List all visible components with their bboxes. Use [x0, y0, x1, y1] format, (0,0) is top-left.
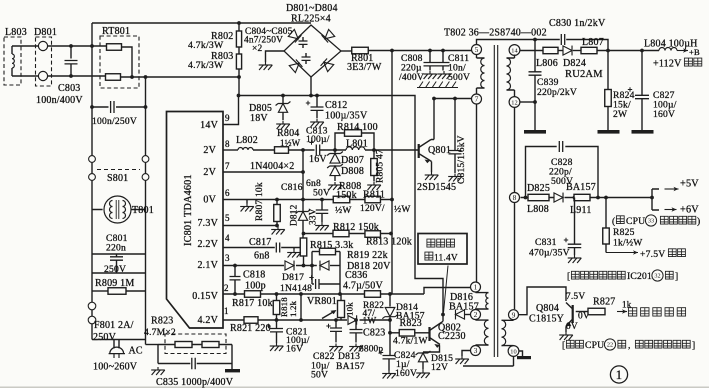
capacitor C822	[335, 320, 337, 328]
wire pin 3 row	[223, 265, 317, 267]
capacitor C817	[276, 243, 279, 253]
svg-text:33V: 33V	[309, 208, 319, 225]
svg-text:[: [	[562, 340, 565, 351]
svg-text:R817 10k: R817 10k	[232, 298, 273, 309]
svg-text:Q804: Q804	[536, 303, 559, 314]
fuse F801	[88, 302, 96, 310]
svg-text:16V: 16V	[286, 344, 303, 355]
svg-text:4.7M×2: 4.7M×2	[144, 327, 176, 338]
svg-text:C830 1n/2kV: C830 1n/2kV	[549, 18, 606, 29]
T802 pin 3	[471, 346, 481, 356]
scan edge artifact	[0, 386, 709, 388]
svg-text:C817: C817	[249, 237, 271, 248]
+5V arrow	[665, 188, 679, 190]
svg-text:D817: D817	[282, 272, 304, 283]
svg-text:9: 9	[225, 113, 230, 123]
ground C824	[382, 371, 396, 379]
svg-text:R823: R823	[400, 318, 422, 329]
svg-text:1k/½W: 1k/½W	[613, 238, 643, 249]
svg-text:D812: D812	[290, 204, 300, 226]
svg-text:BA157: BA157	[566, 182, 596, 193]
resistor R823b	[202, 342, 219, 348]
resistor R801	[352, 47, 369, 54]
ground bar pin12	[524, 130, 546, 134]
resistor R812	[333, 230, 349, 237]
diode D825	[554, 193, 563, 203]
svg-text:160V: 160V	[395, 368, 417, 379]
ground C835 left	[151, 367, 165, 375]
svg-text:4: 4	[225, 233, 230, 243]
wire pin 4 row	[223, 247, 300, 249]
svg-text:R807 10k: R807 10k	[255, 182, 265, 221]
T802 winding 1-2	[476, 292, 489, 310]
ground C811	[437, 71, 451, 79]
svg-text:C2230: C2230	[438, 331, 466, 342]
svg-text:S801: S801	[107, 173, 128, 184]
zener D815	[416, 351, 431, 362]
wire sense column lower	[390, 200, 392, 307]
svg-text:1N4004×2: 1N4004×2	[250, 161, 294, 172]
wire to R823	[390, 332, 400, 334]
bridge diode 1	[288, 29, 301, 42]
svg-text:7: 7	[225, 161, 230, 171]
wire B+ rail	[597, 50, 659, 52]
resistor R813	[365, 231, 381, 238]
svg-text:8: 8	[225, 139, 230, 149]
svg-text:160V: 160V	[653, 109, 675, 120]
capacitor C802	[92, 106, 109, 108]
wire divider bottom	[158, 363, 232, 365]
svg-text:½W: ½W	[335, 205, 352, 216]
D801 contact top	[38, 41, 47, 50]
diode D818	[330, 265, 340, 267]
svg-text:1N4148: 1N4148	[280, 283, 312, 294]
ground Q804	[559, 332, 573, 340]
5V/6V fork	[652, 189, 659, 210]
svg-text:100n/400V: 100n/400V	[36, 95, 83, 106]
svg-text:33: 33	[648, 218, 654, 225]
wire top mains rail	[92, 22, 311, 24]
wire pin5 top loop	[477, 40, 536, 46]
capacitor C812	[316, 96, 318, 107]
ground C815	[448, 174, 462, 182]
inductor L804	[659, 48, 677, 51]
svg-text:220p/2kV: 220p/2kV	[537, 87, 577, 98]
capacitor C821	[276, 320, 278, 328]
T802 core	[494, 45, 497, 357]
page number circle	[610, 366, 627, 383]
diode D824	[558, 50, 563, 52]
resistor R815 (vertical)	[300, 238, 307, 256]
wire pin1 row	[424, 288, 471, 295]
svg-text:[: [	[567, 271, 570, 282]
ground bar C835 right	[225, 369, 240, 372]
T802 pin 9	[509, 310, 519, 320]
svg-text:C803: C803	[58, 83, 80, 94]
resistor R819	[312, 251, 319, 253]
ground D807/D808	[328, 182, 342, 190]
switch S801 contacts	[89, 156, 96, 163]
wire L801 to base	[365, 149, 419, 151]
resistor R822	[365, 291, 381, 298]
svg-text:CPU: CPU	[626, 216, 645, 227]
wire R812 row	[304, 233, 393, 235]
standby text line1	[427, 239, 435, 247]
wire mains neutral vertical	[145, 77, 147, 345]
svg-text:R825: R825	[613, 227, 635, 238]
svg-text:4.2V: 4.2V	[197, 315, 218, 326]
svg-text:7.5V: 7.5V	[566, 292, 585, 302]
wire pin 9	[223, 96, 239, 125]
svg-text:,: ,	[628, 340, 631, 351]
resistor R802	[238, 23, 240, 31]
svg-text:50V: 50V	[313, 188, 330, 199]
svg-text:C812: C812	[325, 100, 347, 111]
R819/D818 loop verticals	[312, 252, 340, 285]
inductor L803 (dashed enclosure)	[4, 37, 21, 85]
wire T802 pin7 row	[434, 98, 472, 100]
ground bar C827	[632, 130, 654, 134]
T801 stub wires	[92, 209, 146, 211]
svg-text:2.2V: 2.2V	[197, 239, 218, 250]
thermistor RT801 (dashed enclosure)	[100, 36, 139, 88]
svg-text:5: 5	[225, 213, 230, 223]
wire L802 to R804	[253, 149, 275, 151]
diode D817	[285, 261, 294, 271]
wire top row to RT801	[48, 45, 107, 47]
capacitor C805 (in bridge)	[305, 53, 307, 57]
svg-text:+6V: +6V	[680, 205, 699, 216]
svg-text:120V/: 120V/	[360, 204, 385, 214]
svg-text:500V: 500V	[448, 72, 470, 83]
wire divider right leg	[231, 345, 233, 370]
svg-text:T802 36—2S8740—002: T802 36—2S8740—002	[444, 28, 547, 39]
wire L803 bottom	[12, 75, 39, 77]
svg-text:D801~D804: D801~D804	[286, 3, 338, 14]
ground pin5	[271, 227, 285, 235]
svg-text:D824: D824	[563, 58, 586, 69]
heatsink hatching	[417, 87, 458, 89]
capacitor C827	[641, 51, 643, 96]
power-control label	[628, 308, 636, 316]
wire bridge bottom to line	[310, 77, 312, 96]
ground pin6 tap	[246, 200, 248, 204]
svg-text:L802: L802	[236, 135, 258, 146]
inductor L808 (bead)	[528, 194, 549, 200]
svg-text:C836: C836	[345, 270, 367, 281]
T802 right column wire	[514, 107, 516, 309]
L803 coil	[11, 46, 13, 54]
svg-text:100~260V: 100~260V	[93, 362, 138, 373]
svg-text:×2: ×2	[252, 44, 262, 54]
capacitor C801 rung top	[92, 253, 146, 255]
svg-text:C816: C816	[281, 182, 303, 193]
svg-text:F801 2A/: F801 2A/	[94, 320, 134, 331]
svg-text:D808: D808	[341, 166, 364, 177]
diode D816	[443, 314, 445, 316]
Q802 emitter wire	[423, 345, 440, 353]
svg-text:14: 14	[511, 47, 518, 54]
svg-text:½W: ½W	[394, 204, 411, 215]
resistor R825 (vertical)	[605, 198, 607, 229]
ground bar R824	[598, 130, 620, 134]
svg-text:]: ]	[692, 340, 695, 351]
svg-text:470µ/35V: 470µ/35V	[529, 248, 570, 259]
power-control arrow	[617, 311, 627, 313]
svg-text:/400V: /400V	[399, 72, 424, 83]
resistor R827	[588, 308, 605, 315]
svg-text:+5V: +5V	[680, 179, 699, 190]
T802 winding 9-10	[502, 319, 514, 346]
svg-text:1W: 1W	[363, 317, 377, 327]
svg-text:1: 1	[474, 283, 478, 292]
Q802 collector wire	[442, 315, 443, 323]
ground at bridge	[259, 62, 273, 70]
annotation leader	[444, 266, 449, 313]
svg-text:IC201: IC201	[627, 271, 652, 282]
ground C817	[293, 248, 295, 250]
bridge rectifier D801~D804	[284, 25, 341, 77]
fuse/holder D801 (dashed enclosure)	[36, 37, 52, 86]
T802 pin 14	[509, 45, 520, 56]
wire bottom return	[463, 357, 514, 367]
wire bottom row to RT801	[48, 75, 105, 77]
resistor R823 (1W)	[399, 330, 415, 337]
svg-text:0V: 0V	[566, 322, 578, 332]
svg-text:RT801: RT801	[102, 26, 130, 37]
ground Q801 emitter	[425, 172, 439, 180]
svg-text:50V: 50V	[311, 370, 328, 381]
svg-text:R814 100: R814 100	[337, 122, 378, 133]
transformer T801	[104, 196, 131, 223]
svg-text:L801: L801	[346, 139, 368, 150]
svg-text:C835 1000p/400V: C835 1000p/400V	[156, 377, 234, 388]
svg-text:0V: 0V	[203, 195, 216, 206]
svg-text:RL225×4: RL225×4	[291, 14, 331, 25]
wire L803 top	[12, 45, 39, 47]
inductor L807 (bead)	[581, 47, 597, 53]
wire pin 6 row	[223, 199, 392, 201]
svg-text:L808: L808	[527, 204, 549, 215]
diode D808	[327, 164, 343, 176]
svg-text:R809 1M: R809 1M	[95, 278, 134, 289]
RT801 top element	[107, 44, 122, 51]
inductor L801	[346, 147, 365, 150]
svg-text:14V: 14V	[200, 120, 218, 131]
svg-text:4n7/250V: 4n7/250V	[244, 36, 283, 46]
ground bar pin10	[517, 356, 531, 359]
svg-text:T801: T801	[132, 205, 154, 216]
wire pin8 row	[521, 197, 653, 199]
svg-text:0.15V: 0.15V	[192, 291, 218, 302]
svg-text:D801: D801	[34, 27, 57, 38]
bridge diode 2	[322, 29, 335, 42]
capacitor C818	[234, 266, 236, 277]
svg-text:2.1V: 2.1V	[197, 260, 218, 271]
Q804 base wire	[576, 311, 588, 313]
svg-text:2: 2	[224, 283, 229, 293]
svg-text:12: 12	[511, 99, 517, 106]
ground C808	[423, 71, 437, 79]
svg-text:+112V: +112V	[653, 59, 682, 70]
svg-text:L807: L807	[582, 37, 604, 48]
resistor R821	[244, 317, 258, 324]
wire node column x=303	[302, 150, 304, 212]
svg-text:250V: 250V	[104, 264, 126, 275]
transistor Q804	[572, 305, 574, 323]
wire B+ sense line	[239, 96, 444, 315]
wire pin3 to ground	[462, 351, 471, 357]
capacitor C836	[312, 283, 314, 285]
wire R823 to Q802 base	[415, 332, 430, 334]
resistor R804	[275, 147, 289, 154]
capacitor C823	[355, 320, 357, 329]
svg-text:250V: 250V	[93, 332, 117, 343]
svg-text:100µ/: 100µ/	[306, 134, 330, 145]
wire divider left leg	[157, 345, 159, 364]
wire loop to VR row	[339, 284, 341, 294]
svg-text:+7.5V: +7.5V	[640, 249, 665, 260]
capacitor C830 wire	[535, 40, 608, 51]
wire pin 1 row	[223, 319, 390, 321]
wire pin 2 row	[223, 293, 424, 295]
svg-text:C818: C818	[243, 270, 265, 281]
RT801 bottom element	[106, 74, 121, 81]
capacitor C804 (in bridge)	[302, 37, 304, 41]
standby text line2	[425, 252, 433, 260]
zener D805	[282, 96, 284, 104]
svg-text:D807: D807	[341, 155, 364, 166]
svg-text:R821 220: R821 220	[230, 323, 271, 334]
T802 pin 10	[508, 346, 519, 357]
B+ arrow	[677, 50, 688, 52]
wire pin 8 stub	[223, 149, 238, 151]
resistor R803	[236, 54, 241, 69]
capacitor C808	[429, 51, 431, 63]
T802 pin 1	[471, 282, 481, 292]
standby annotation box	[418, 234, 467, 265]
resistor R814	[345, 130, 362, 137]
bridge diode 4	[321, 58, 334, 71]
svg-text:4.7k/3W: 4.7k/3W	[188, 60, 224, 71]
wire pin14 to L806	[520, 50, 543, 52]
svg-text:4.7k/3W: 4.7k/3W	[188, 40, 224, 51]
ground R805	[367, 182, 381, 190]
svg-text:RU2AM: RU2AM	[565, 69, 603, 80]
bridge diode 3	[289, 59, 302, 72]
svg-text:22: 22	[607, 342, 613, 349]
Q804 emitter wire	[565, 326, 568, 333]
zener D812	[296, 210, 311, 221]
T802 pin 5	[472, 45, 482, 55]
wire pin10 tap	[519, 351, 523, 356]
svg-text:D825: D825	[527, 183, 550, 194]
capacitor C830	[561, 34, 564, 45]
svg-text:18V: 18V	[250, 113, 268, 124]
wire divider row	[158, 344, 232, 346]
resistor R808	[333, 196, 350, 203]
svg-text:]: ]	[675, 271, 678, 282]
inductor L802	[238, 148, 253, 151]
svg-text:BA157: BA157	[336, 361, 365, 372]
resistor R823a	[175, 342, 192, 348]
svg-text:1: 1	[616, 368, 622, 382]
svg-text:L911: L911	[570, 205, 592, 216]
S801 linkage dashed	[97, 169, 140, 171]
T802 winding 2-3	[476, 319, 489, 346]
svg-text:1½W: 1½W	[280, 138, 301, 148]
svg-text:3: 3	[474, 346, 478, 355]
svg-text:L806: L806	[536, 58, 558, 69]
svg-text:7.3V: 7.3V	[197, 218, 218, 229]
svg-text:VR801: VR801	[307, 296, 337, 307]
svg-text:2V: 2V	[203, 145, 216, 156]
svg-text:): )	[697, 216, 700, 227]
AC plug	[92, 339, 146, 341]
wire R801 to T802 pin5	[368, 50, 472, 52]
svg-text:6n8: 6n8	[254, 251, 270, 262]
T802 left column wire	[476, 104, 478, 283]
diode D813	[348, 315, 357, 324]
T802 pin 7	[472, 94, 482, 104]
ground C823	[349, 344, 363, 352]
svg-text:1.2k: 1.2k	[288, 300, 298, 317]
svg-text:R813 120k: R813 120k	[366, 237, 412, 248]
svg-text:R827: R827	[593, 297, 615, 308]
ground D815	[416, 370, 430, 378]
capacitor C811	[442, 51, 444, 63]
capacitor C831	[574, 198, 576, 244]
wire R801 node vertical	[391, 51, 393, 201]
svg-text:4.7µ/50V: 4.7µ/50V	[343, 281, 383, 292]
svg-text:CPU: CPU	[585, 340, 604, 351]
T802 secondary winding 14-12	[507, 55, 515, 97]
ground C816	[315, 223, 329, 231]
svg-text:AC: AC	[129, 346, 143, 357]
svg-text:Q801: Q801	[428, 145, 451, 156]
wire C813 to loop	[320, 149, 346, 151]
svg-text:10k: 10k	[345, 302, 355, 316]
svg-text:11.4V: 11.4V	[434, 254, 458, 264]
capacitor C835	[192, 358, 195, 370]
resistor R807 (vertical)	[276, 200, 278, 205]
svg-text:+B: +B	[689, 47, 700, 57]
resistor R809	[92, 290, 108, 292]
wire mains live vertical	[91, 23, 93, 340]
resistor R823 divider (dashed enclosure)	[165, 334, 226, 354]
resistor R818 (vertical)	[276, 294, 278, 300]
svg-text:12V: 12V	[431, 362, 448, 373]
resistor R805	[373, 150, 375, 158]
svg-text:3: 3	[225, 253, 230, 263]
zener D814	[382, 308, 397, 319]
svg-text:5: 5	[475, 45, 479, 54]
svg-text:9: 9	[512, 310, 516, 319]
resistor R817	[245, 291, 261, 298]
wire C801 rung bottom	[92, 272, 146, 274]
capacitor C816	[321, 200, 323, 210]
svg-text:C831: C831	[535, 237, 557, 248]
inductor L911 (bead)	[574, 194, 590, 200]
wire plug to divider	[146, 344, 159, 346]
T802 pin 8	[510, 193, 520, 203]
wire pin 7 row	[223, 171, 303, 173]
svg-text:100n/250V: 100n/250V	[92, 116, 137, 127]
svg-text:16V: 16V	[309, 154, 327, 165]
svg-text:150k: 150k	[336, 190, 357, 201]
wire RT801 to R803 node	[146, 76, 239, 78]
svg-text:C823: C823	[363, 328, 385, 339]
